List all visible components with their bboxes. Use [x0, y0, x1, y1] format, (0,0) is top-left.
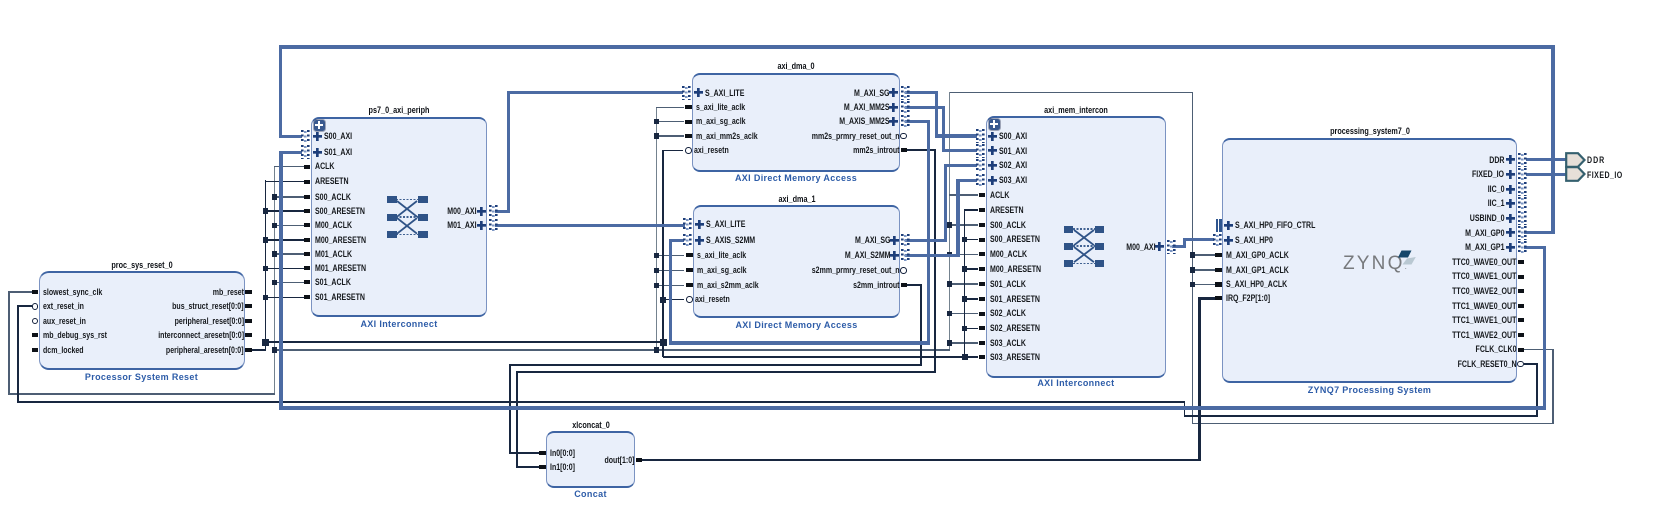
wire s2mm_introut In0 stub	[510, 452, 539, 454]
pin-label slowest_sync_clk	[43, 287, 102, 298]
junction clock junction S00_ACLK	[272, 194, 278, 200]
wire S01_AXI mem stub	[942, 149, 978, 152]
pin-label M01_AXI	[448, 220, 477, 231]
interface-pin plus S01_AXI	[313, 148, 322, 157]
pin-label axi_dma_0 s_axi_lite_aclk	[696, 102, 745, 113]
junction aresetn junction branch-DMA	[660, 339, 667, 346]
pin-label ps7_0_axi_periph S00_ACLK	[315, 192, 351, 203]
pin processing_system7_0 FCLK_RESET0_N (active-low)	[1517, 361, 1524, 368]
pin axi_mem_intercon S02_ARESETN	[979, 326, 986, 330]
wire S_AXIS_S2MM riser	[669, 239, 672, 345]
wire axi_mem_intercon M00_ARESETN stub	[964, 268, 979, 270]
wire peripheral_aresetn bus left of ps7_0_axi_periph	[265, 180, 267, 350]
pin axi_mem_intercon S02_ACLK	[979, 312, 986, 316]
pin ps7_0_axi_periph M01_ARESETN	[304, 266, 311, 270]
wire FCLK_CLK0 run to proc_sys_reset	[8, 393, 275, 395]
pin axi_mem_intercon M00_ACLK	[979, 252, 986, 256]
pin ps7_0_axi_periph ACLK	[304, 165, 311, 169]
pin mm2s_introut	[901, 148, 908, 152]
junction clock junction PS7 ACLK	[1190, 267, 1196, 273]
junction clock junction axi_dma bus	[654, 119, 660, 125]
wire axi_dma_1 M_AXI_SG out	[905, 239, 947, 242]
pin mb_debug_sys_rst	[32, 333, 39, 337]
pin-label ps7_0_axi_periph S01_ACLK	[315, 277, 351, 288]
wire FCLK_CLK0 bottom run	[1192, 423, 1554, 425]
wire axi_dma_0 M_AXI_SG out	[905, 91, 938, 94]
wire M00_AXI pin stub	[495, 210, 510, 213]
pin axi_dma_0 s_axi_lite_aclk	[685, 105, 692, 109]
pin-label axi_mem_intercon M00_ACLK	[990, 249, 1027, 260]
pin axi_mem_intercon S00_ACLK	[979, 223, 986, 227]
block axi_dma_1 body	[693, 205, 900, 318]
wire M00_AXI to S_AXI_HP0 step	[1183, 238, 1186, 247]
pin-label In0	[550, 448, 575, 459]
wire FCLK_RESET0_N step	[1184, 402, 1186, 417]
wire processing_system7_0 M_AXI_GP1_ACLK stub	[1192, 269, 1216, 271]
wire FCLK_CLK0 riser to pin	[1552, 350, 1554, 425]
pin-label In1	[550, 462, 575, 473]
pin-label S_AXI_LITE dma0	[705, 88, 744, 99]
junction clock junction PS7 ACLK	[1190, 252, 1196, 258]
pin ps7_0_axi_periph S01_ARESETN	[304, 295, 311, 299]
interface-indicator S_AXI_HP0 ps7	[1213, 234, 1222, 248]
wire M_AXI_GP0 top run	[279, 45, 1555, 48]
block axi_mem_intercon crossbar icon	[1064, 224, 1104, 267]
interface-pin plus M_AXI_SG dma1	[890, 236, 899, 245]
wire mm2s_introut drop	[934, 150, 936, 373]
interface-pin plus S_AXI_LITE dma0	[694, 88, 703, 97]
pin-label processing_system7_0 TTC1_WAVE0_OUT	[1452, 301, 1516, 312]
interface-pin plus M_AXI_MM2S dma0	[889, 103, 898, 112]
pin-label S_AXI_HP0 ps7	[1235, 235, 1273, 246]
wire axi_mem_intercon S00_ACLK stub	[949, 224, 979, 226]
interface-indicator S00_AXI	[301, 130, 310, 144]
interface-pin plus IIC_0 ps7	[1506, 185, 1515, 194]
interface-pin plus M00_AXI	[477, 207, 486, 216]
interface-indicator M_AXI_S2MM dma1	[901, 249, 910, 263]
wire s2mm_introut drop	[920, 285, 922, 366]
pin processing_system7_0 TTC1_WAVE2_OUT	[1518, 333, 1525, 337]
wire axi_mem_intercon S01_ARESETN stub	[964, 298, 979, 300]
interface-pin plus S03_AXI mem	[988, 176, 997, 185]
pin-label axi_mem_intercon S02_ARESETN	[990, 323, 1040, 334]
wire FIXED_IO wire	[1526, 173, 1568, 176]
pin axi_dma_1 s_axi_lite_aclk	[686, 253, 693, 257]
wire axi_dma_0 axi_resetn stub	[663, 150, 683, 152]
wire axi_mem_intercon S02_ARESETN stub	[964, 328, 979, 330]
pin-label FIXED_IO external	[1587, 170, 1623, 181]
pin-label processing_system7_0 TTC0_WAVE1_OUT	[1452, 271, 1516, 282]
block processing_system7_0 title	[1253, 126, 1487, 137]
interface-indicator S00_AXI mem	[976, 129, 985, 143]
interface-indicator M_AXI_SG dma0	[901, 86, 910, 100]
pin-label S_AXIS_S2MM dma1	[706, 235, 755, 246]
junction clock junction main-horizontal	[272, 347, 278, 353]
wire M00_AXI mem pin stub	[1172, 245, 1186, 248]
pin IRQ_F2P	[1215, 296, 1222, 300]
pin-label axi_mem_intercon S01_ACLK	[990, 279, 1026, 290]
junction clock junction axi_dma bus	[654, 347, 660, 353]
wire ps7_0_axi_periph S00_ARESETN stub	[265, 210, 305, 212]
pin processing_system7_0 M_AXI_GP0_ACLK	[1215, 253, 1222, 257]
pin axi_mem_intercon ACLK	[979, 193, 986, 197]
pin-label processing_system7_0 M_AXI_GP0_ACLK	[1226, 250, 1289, 261]
pin axi_mem_intercon S00_ARESETN	[979, 238, 986, 242]
pin peripheral_reset[0:0]	[245, 319, 252, 323]
wire M_AXI_SG drop to S00_AXI	[935, 93, 938, 138]
junction aresetn junction mem S01_ARESETN	[962, 296, 968, 302]
wire FCLK_RESET0_N right run	[1185, 415, 1539, 417]
wire S00_AXI mem stub	[935, 134, 978, 137]
pin-label dout	[604, 455, 634, 466]
pin-label axi_mem_intercon S02_ACLK	[990, 308, 1026, 319]
wire axi_dma_1 m_axi_sg_aclk stub	[656, 270, 684, 272]
junction aresetn junction axi_dma_1	[660, 297, 666, 303]
pin axi_mem_intercon S01_ACLK	[979, 282, 986, 286]
pin-label axi_mem_intercon S00_ARESETN	[990, 234, 1040, 245]
interface-pin plus S01_AXI mem	[988, 146, 997, 155]
wire mm2s_introut In1 stub	[517, 466, 539, 468]
junction clock junction axi_mem_intercon bus	[947, 281, 953, 287]
wire processing_system7_0 S_AXI_HP0_ACLK stub	[1192, 284, 1216, 286]
interface-indicator M_AXI_GP0 ps7	[1518, 226, 1527, 240]
wire slowest_sync_clk stub	[8, 291, 32, 293]
pin ps7_0_axi_periph S01_ACLK	[304, 280, 311, 284]
pin-label mm2s_introut	[853, 145, 899, 156]
interface-pin plus S_AXI_HP0 ps7	[1224, 236, 1233, 245]
pin-label S00_AXI mem	[999, 131, 1027, 142]
wire M_AXI_GP1 pin stub	[1524, 246, 1546, 249]
interface-pin plus M_AXI_SG dma0	[889, 88, 898, 97]
interface-indicator M00_AXI	[489, 205, 498, 219]
pin-label S_AXI_HP0_FIFO_CTRL	[1235, 220, 1315, 231]
interface-pin plus S_AXIS_S2MM dma1	[695, 236, 704, 245]
pin-label processing_system7_0 FCLK_CLK0	[1476, 344, 1517, 355]
pin-label mm2s_prmry_reset_out_n	[812, 131, 900, 142]
wire DDR wire	[1526, 158, 1568, 161]
wire ps7_0_axi_periph S01_ARESETN stub	[265, 297, 305, 299]
wire dout riser at PS7	[1198, 297, 1200, 461]
interface-indicator S_AXI_LITE dma1	[683, 218, 692, 232]
block ps7_0_axi_periph crossbar icon	[387, 195, 427, 239]
pin-label S03_AXI mem	[999, 175, 1027, 186]
pin bus_struct_reset[0:0]	[245, 304, 252, 308]
junction clock junction axi_dma bus	[654, 283, 660, 289]
junction aresetn junction mem M00_ARESETN	[962, 266, 968, 272]
pin-label s2mm_prmry_reset_out_n	[812, 265, 900, 276]
wire axi_mem_intercon S03_ACLK stub	[949, 342, 979, 344]
pin axi_mem_intercon S03_ACLK	[979, 341, 986, 345]
pin-label S_AXI_LITE dma1	[706, 219, 745, 230]
wire M_AXI_GP1 drop at S01_AXI	[279, 152, 282, 409]
pin-label axi_dma_1 m_axi_sg_aclk	[697, 265, 747, 276]
block axi_mem_intercon type label	[926, 378, 1226, 388]
wire mm2s_introut drop to concat	[516, 372, 518, 468]
pin ps7_0_axi_periph M00_ARESETN	[304, 238, 311, 242]
pin axi_mem_intercon S01_ARESETN	[979, 297, 986, 301]
pin-label M_AXI_MM2S dma0	[844, 102, 890, 113]
pin processing_system7_0 TTC1_WAVE0_OUT	[1518, 304, 1525, 308]
block ps7_0_axi_periph type label	[249, 319, 549, 329]
pin-label mb_debug_sys_rst	[43, 330, 107, 341]
interface-pin plus DDR ps7	[1506, 155, 1515, 164]
interface-pin plus IIC_1 ps7	[1506, 199, 1515, 208]
wire ps7_0_axi_periph S00_ACLK stub	[274, 196, 305, 198]
interface-pin plus S00_AXI mem	[988, 132, 997, 141]
wire IRQ_F2P stub	[1199, 297, 1216, 299]
pin aux_reset_in (active-low)	[32, 318, 39, 325]
junction aresetn junction mem S02_ARESETN	[962, 326, 968, 332]
block axi_dma_0 title	[679, 61, 913, 72]
wire aresetn bus at axi_mem_intercon	[964, 209, 966, 358]
junction clock junction M00_ACLK	[272, 223, 278, 229]
interface-indicator IIC_0 ps7	[1518, 182, 1527, 196]
pin-label processing_system7_0 TTC0_WAVE0_OUT	[1452, 257, 1516, 268]
wire peripheral_aresetn branch to DMA	[266, 341, 665, 343]
pin-label processing_system7_0 S_AXI_HP0_ACLK	[1226, 279, 1287, 290]
pin ps7_0_axi_periph ARESETN	[304, 180, 311, 184]
junction clock junction axi_mem_intercon bus	[947, 252, 953, 258]
pin-label peripheral_aresetn[0:0]	[166, 345, 244, 356]
pin-label USBIND_0 ps7	[1470, 213, 1505, 224]
block xlconcat_0 body	[546, 431, 635, 488]
pin-label DDR external	[1587, 155, 1605, 166]
junction aresetn junction S00_ARESETN	[263, 208, 269, 214]
wire ps7_0_axi_periph ARESETN stub	[265, 181, 305, 183]
pin processing_system7_0 S_AXI_HP0_ACLK	[1215, 282, 1222, 286]
pin-label ps7_0_axi_periph ARESETN	[315, 176, 349, 187]
pin axi_dma_0 m_axi_sg_aclk	[685, 120, 692, 124]
pin interconnect_aresetn[0:0]	[245, 333, 252, 337]
junction clock junction axi_mem_intercon bus	[947, 222, 953, 228]
pin processing_system7_0 M_AXI_GP1_ACLK	[1215, 268, 1222, 272]
pin ps7_0_axi_periph M01_ACLK	[304, 252, 311, 256]
pin-label S01_AXI mem	[999, 146, 1027, 157]
pin-label IIC_0 ps7	[1488, 184, 1505, 195]
pin-label ps7_0_axi_periph S01_ARESETN	[315, 292, 365, 303]
pin-label ps7_0_axi_periph M00_ARESETN	[315, 235, 366, 246]
wire M_AXI_GP1 riser at PS7	[1543, 247, 1546, 409]
pin axi_dma_0 axi_resetn (active-low)	[685, 147, 692, 154]
wire S_AXI_HP0 stub	[1185, 238, 1215, 241]
pin-label processing_system7_0 M_AXI_GP1_ACLK	[1226, 265, 1289, 276]
pin-label M_AXI_GP1 ps7	[1465, 242, 1504, 253]
block axi_dma_0 body	[692, 73, 900, 172]
junction clock junction axi_mem_intercon bus	[947, 340, 953, 346]
interface-indicator M_AXI_SG dma1	[901, 234, 910, 248]
interface-pin plus FIXED_IO ps7	[1506, 170, 1515, 179]
wire ps7_0_axi_periph M01_ACLK stub	[274, 253, 305, 255]
wire axi_mem_intercon ARESETN stub	[964, 209, 979, 211]
interface-indicator M00_AXI mem	[1167, 240, 1176, 254]
wire s2mm_introut run	[509, 364, 922, 366]
pin-label interconnect_aresetn[0:0]	[158, 330, 244, 341]
wire mm2s_introut run	[516, 371, 937, 373]
interface-indicator IIC_1 ps7	[1518, 197, 1527, 211]
pin-label dcm_locked	[43, 345, 84, 356]
wire axi_mem_intercon ACLK stub	[949, 194, 979, 196]
pin peripheral_aresetn[0:0]	[245, 348, 252, 352]
pin mb_reset	[245, 290, 252, 294]
interface-pin plus M_AXI_GP0 ps7	[1506, 228, 1515, 237]
wire ps7_0_axi_periph S01_ACLK stub	[274, 282, 305, 284]
wire clock bus left of axi_dma blocks	[656, 107, 657, 350]
wire FCLK_CLK0 main horizontal	[274, 349, 950, 351]
pin-label M00_AXI	[448, 206, 477, 217]
pin-label ps7_0_axi_periph S00_ARESETN	[315, 206, 365, 217]
wire ps7_0_axi_periph M00_ARESETN stub	[265, 239, 305, 241]
block xlconcat_0 title	[474, 420, 708, 431]
wire FCLK_CLK0 bus right (to PS7 ACLK pins)	[1192, 92, 1194, 425]
pin-label aux_reset_in	[43, 316, 86, 327]
pin axi_dma_1 axi_resetn (active-low)	[686, 296, 693, 303]
wire axi_resetn bus at DMA blocks	[662, 150, 664, 358]
pin axi_dma_1 m_axi_sg_aclk	[686, 268, 693, 272]
pin-label axi_dma_0 m_axi_mm2s_aclk	[696, 131, 758, 142]
wire FCLK_CLK0 drop at far left	[8, 292, 10, 395]
pin-label DDR ps7	[1489, 155, 1504, 166]
block ps7_0_axi_periph body	[311, 117, 488, 317]
interface-indicator FIXED_IO ps7	[1518, 168, 1527, 182]
wire s2mm_introut stub	[905, 284, 922, 286]
external port FIXED_IO	[1565, 166, 1586, 182]
interface-pin plus M01_AXI	[477, 221, 486, 230]
pin axi_mem_intercon M00_ARESETN	[979, 267, 986, 271]
pin-label S02_AXI mem	[999, 160, 1027, 171]
pin dout	[636, 458, 643, 462]
wire axi_dma_0 s_axi_lite_aclk stub	[656, 107, 684, 109]
wire axi_mem_intercon S00_ARESETN stub	[964, 239, 979, 241]
wire dout to IRQ_F2P run	[640, 459, 1201, 461]
pin-label axi_dma_1 m_axi_s2mm_aclk	[697, 280, 759, 291]
wire axi_dma_1 M_AXI_S2MM out	[905, 254, 960, 257]
pin-label processing_system7_0 TTC1_WAVE1_OUT	[1452, 315, 1516, 326]
pin axi_mem_intercon S03_ARESETN	[979, 355, 986, 359]
block axi_mem_intercon settings icon	[989, 119, 1001, 131]
wire FCLK_RESET0_N riser	[1536, 364, 1538, 416]
pin s2mm_prmry_reset_out_n (active-low)	[900, 267, 907, 274]
wire M00_AXI to axi_dma_0 S_AXI_LITE	[507, 91, 684, 94]
pin-label axi_mem_intercon ACLK	[990, 190, 1010, 201]
pin dcm_locked	[32, 348, 39, 352]
wire M_AXIS_MM2S drop	[927, 122, 930, 345]
pin-label peripheral_reset[0:0]	[175, 316, 244, 327]
pin-label axi_mem_intercon S01_ARESETN	[990, 294, 1040, 305]
wire axi_dma_1 axi_resetn stub	[663, 299, 684, 301]
wire axi_dma_1 m_axi_s2mm_aclk stub	[656, 285, 684, 287]
junction aresetn junction S01_ARESETN	[263, 295, 269, 301]
junction aresetn junction M01_ARESETN	[263, 266, 269, 272]
block processing_system7_0 type label	[1220, 385, 1520, 395]
interface-indicator USBIND_0 ps7	[1518, 211, 1527, 225]
wire ext_reset_in stub	[17, 305, 32, 307]
pin-label axi_mem_intercon S03_ACLK	[990, 338, 1026, 349]
junction clock junction axi_mem_intercon bus	[947, 311, 953, 317]
block proc_sys_reset_0 body	[39, 271, 245, 370]
pin axi_dma_0 m_axi_mm2s_aclk	[685, 134, 692, 138]
interface-indicator S01_AXI	[301, 145, 310, 159]
wire ps7_0_axi_periph M00_ACLK stub	[274, 225, 305, 227]
wire S00_AXI stub	[279, 135, 302, 138]
junction aresetn junction mem S00_ARESETN	[962, 237, 968, 243]
wire FCLK_CLK0 pin stub	[1523, 349, 1554, 351]
pin ps7_0_axi_periph S00_ACLK	[304, 195, 311, 199]
wire axi_mem_intercon S02_ACLK stub	[949, 313, 979, 315]
wire S01_AXI stub	[279, 151, 302, 154]
pin In1	[539, 465, 546, 469]
pin-label M_AXI_SG dma1	[855, 235, 891, 246]
pin axi_mem_intercon ARESETN	[979, 208, 986, 212]
wire axi_dma_0 M_AXI_MM2S out	[905, 106, 945, 109]
interface-indicator M_AXIS_MM2S dma0	[901, 115, 910, 129]
interface-pin plus M00_AXI mem	[1155, 242, 1164, 251]
interface-indicator M_AXI_MM2S dma0	[901, 101, 910, 115]
pin processing_system7_0 TTC0_WAVE1_OUT	[1518, 275, 1525, 279]
junction aresetn junction mem S03_ARESETN	[962, 354, 968, 360]
pin processing_system7_0 TTC0_WAVE0_OUT	[1518, 260, 1525, 264]
block processing_system7_0 body	[1222, 138, 1517, 383]
pin-label S01_AXI	[324, 147, 352, 158]
pin-label ps7_0_axi_periph ACLK	[315, 161, 335, 172]
wire axi_dma_1 s_axi_lite_aclk stub	[656, 255, 684, 257]
pin mm2s_prmry_reset_out_n (active-low)	[900, 133, 907, 140]
pin-label S00_AXI	[324, 131, 352, 142]
pin-label processing_system7_0 TTC0_WAVE2_OUT	[1452, 286, 1516, 297]
block processing_system7_0 ZYNQ logo	[1343, 246, 1429, 278]
external port DDR	[1565, 152, 1586, 168]
pin-label mb_reset	[213, 287, 244, 298]
wire FCLK_CLK0 bus left of axi_mem_intercon	[949, 92, 950, 351]
wire FCLK_RESET0_N drop at far left	[17, 306, 19, 403]
pin-label M00_AXI mem	[1126, 242, 1155, 253]
wire M_AXI_GP1 bottom run	[279, 406, 1546, 409]
interface-indicator M_AXI_GP1 ps7	[1518, 241, 1527, 255]
pin-label axi_dma_0 axi_resetn	[694, 145, 729, 156]
interface-indicator S_AXI_HP0_FIFO_CTRL bars	[1216, 219, 1218, 233]
pin processing_system7_0 FCLK_CLK0	[1518, 348, 1525, 352]
wire FCLK_RESET0_N pin stub	[1524, 363, 1538, 365]
interface-indicator S_AXI_LITE dma0	[682, 86, 691, 100]
wire M00_AXI riser	[507, 91, 510, 213]
pin processing_system7_0 TTC0_WAVE2_OUT	[1518, 289, 1525, 293]
interface-pin plus M_AXIS_MM2S dma0	[889, 117, 898, 126]
interface-pin plus S00_AXI	[313, 132, 322, 141]
pin-label processing_system7_0 TTC1_WAVE2_OUT	[1452, 330, 1516, 341]
junction clock junction M01_ACLK	[272, 251, 278, 257]
wire M01_AXI to axi_dma_1 S_AXI_LITE	[495, 224, 685, 227]
wire M_AXI_S2MM riser to S03_AXI	[956, 179, 959, 256]
wire peripheral_aresetn port link	[246, 349, 266, 351]
wire axi_mem_intercon S01_ACLK stub	[949, 283, 979, 285]
pin-label FIXED_IO ps7	[1473, 169, 1505, 180]
wire mm2s_introut stub	[905, 149, 936, 151]
pin-label IRQ_F2P	[1226, 293, 1270, 304]
wire aresetn run to axi_mem_intercon	[663, 356, 965, 358]
pin-label axi_mem_intercon M00_ARESETN	[990, 264, 1041, 275]
pin-label axi_mem_intercon ARESETN	[990, 205, 1024, 216]
block ps7_0_axi_periph title	[282, 105, 516, 116]
junction aresetn junction M00_ARESETN	[263, 237, 269, 243]
wire s2mm_introut drop to concat	[509, 365, 511, 454]
wire ps7_0_axi_periph M01_ARESETN stub	[265, 268, 305, 270]
wire M_AXI_GP0 pin stub	[1524, 231, 1555, 234]
interface-pin plus S_AXI_LITE dma1	[695, 220, 704, 229]
wire M_AXIS_MM2S stub	[905, 120, 930, 123]
interface-indicator M01_AXI	[489, 219, 498, 233]
wire M_AXI_GP0 riser at PS7	[1551, 47, 1554, 234]
wire axi_dma_0 m_axi_mm2s_aclk stub	[656, 135, 684, 137]
pin-label bus_struct_reset[0:0]	[173, 301, 244, 312]
